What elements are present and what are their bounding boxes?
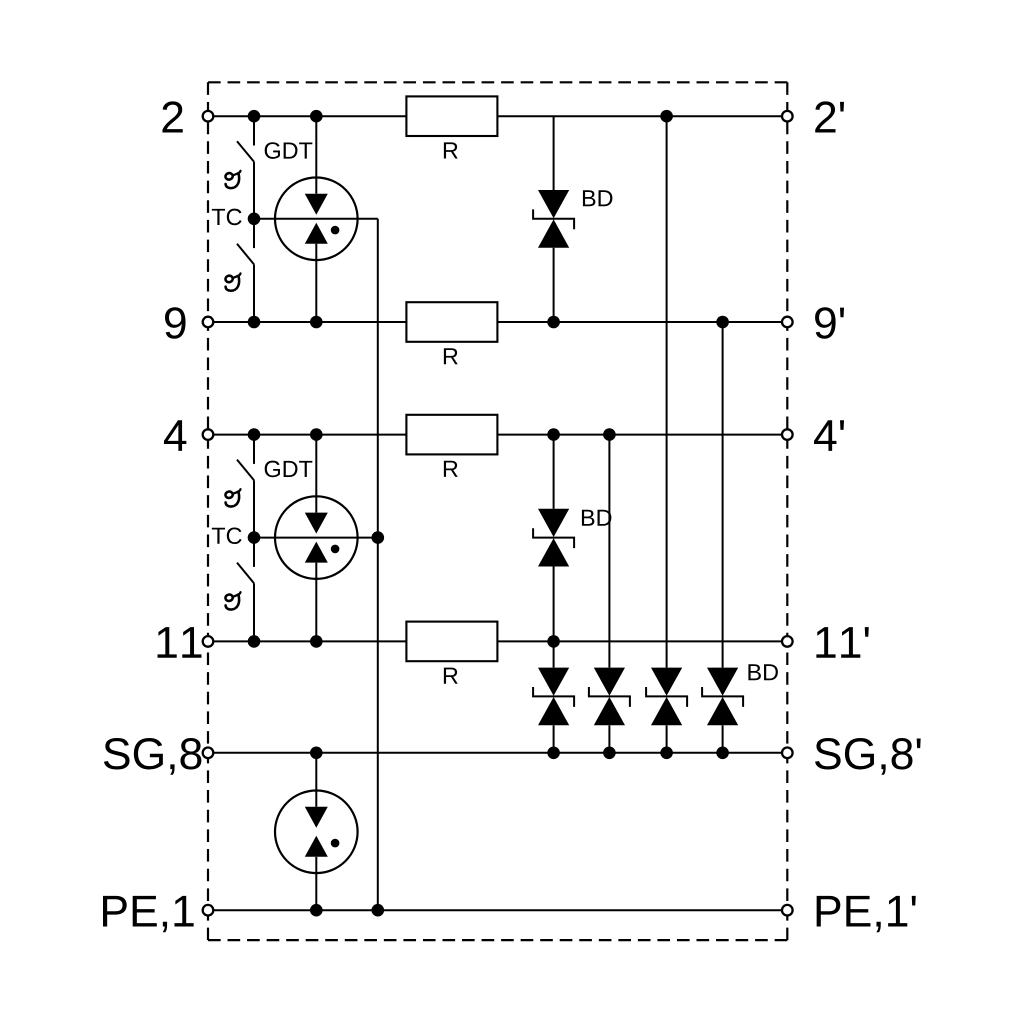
thermal switch TS2: lower wire bbox=[253, 264, 255, 322]
label TC (lower) bbox=[212, 527, 242, 544]
thermal switch TS3: fixed contact wire bbox=[253, 435, 255, 464]
wire BD5 to row SG bbox=[666, 725, 668, 753]
junction rowSG/BD5 col bbox=[660, 747, 673, 760]
junction row9/BD6 col bbox=[716, 316, 729, 329]
junction rowSG/GDT col bbox=[310, 747, 323, 760]
junction row11/switch col bbox=[248, 635, 261, 648]
terminal SG,8' bbox=[782, 748, 793, 759]
gas discharge tube GDT3 (2-electrode) bbox=[275, 791, 358, 874]
wire row2 down to BD5 column bbox=[666, 116, 668, 667]
label GDT (upper) bbox=[265, 142, 313, 159]
thermal switch TS1: fixed contact wire bbox=[253, 116, 255, 145]
label R (row 4) bbox=[444, 461, 458, 477]
junction row11/GDT col bbox=[310, 635, 323, 648]
junction row9/switch col bbox=[248, 316, 261, 329]
wire row2 to GDT1 top electrode bbox=[315, 116, 317, 194]
junction row11/BD3 col bbox=[547, 635, 560, 648]
thermal switch TS3: blade bbox=[237, 460, 254, 481]
junction row2/GDT col bbox=[310, 110, 323, 123]
TC1 horizontal wire through GDT1 bbox=[254, 218, 378, 220]
thermal switch TS4: lower wire bbox=[253, 583, 255, 641]
label terminal 4 bbox=[164, 420, 186, 451]
breakdown diode BD 1 bbox=[533, 190, 574, 248]
thermal switch TS1: lower wire bbox=[253, 162, 255, 219]
junction row4/BD2 col bbox=[547, 428, 560, 441]
wire row4 down to BD2 bbox=[553, 435, 555, 509]
terminal 11 bbox=[203, 636, 214, 647]
junction row4/BD4 col bbox=[603, 428, 616, 441]
thermal switch TS2: fixed contact wire bbox=[253, 219, 255, 248]
label terminal PE,1' bbox=[817, 896, 916, 932]
row 11 horizontal wire bbox=[208, 640, 787, 642]
row 2 horizontal wire bbox=[208, 115, 787, 117]
label terminal SG,8 bbox=[104, 738, 201, 775]
label terminal 2 bbox=[162, 101, 182, 132]
wire BD4 to row SG bbox=[608, 725, 610, 753]
label BD (BD1) bbox=[583, 190, 612, 206]
wire GDT3 bottom electrode to row PE bbox=[315, 857, 317, 910]
thermal switch TS2: blade bbox=[237, 244, 254, 265]
wire row SG to GDT3 top electrode bbox=[315, 753, 317, 807]
junction row2/BD5 col bbox=[660, 110, 673, 123]
breakdown diode BD 2 bbox=[533, 509, 574, 567]
label terminal SG,8' bbox=[815, 738, 921, 775]
junction rowPE/GDT col bbox=[310, 904, 323, 917]
thermal switch TS3: lower wire bbox=[253, 480, 255, 537]
label R (row 11) bbox=[444, 668, 458, 684]
wire BD2 to row 11 bbox=[553, 567, 555, 642]
junction row9/GDT col bbox=[310, 316, 323, 329]
terminal 9' bbox=[782, 317, 793, 328]
wire row11 down to BD3 bbox=[553, 641, 555, 667]
row 4 horizontal wire bbox=[208, 434, 787, 436]
thermal switch TS3: theta symbol bbox=[225, 489, 241, 506]
resistor R (row 2) bbox=[406, 96, 497, 136]
label terminal 4' bbox=[814, 420, 844, 451]
wire BD6 to row SG bbox=[722, 725, 724, 753]
terminal 4' bbox=[782, 429, 793, 440]
junction rowSG/BD6 col bbox=[716, 747, 729, 760]
junction TC2/TC bus bbox=[372, 531, 385, 544]
junction rowSG/BD4 col bbox=[603, 747, 616, 760]
terminal 2' bbox=[782, 111, 793, 122]
junction rowSG/BD3 col bbox=[547, 747, 560, 760]
terminal PE,1' bbox=[782, 905, 793, 916]
breakdown diode BD 5 bbox=[646, 668, 687, 726]
wire row4 to GDT2 top electrode bbox=[315, 435, 317, 513]
junction row4/GDT col bbox=[310, 428, 323, 441]
vertical wire TC bus to PE row bbox=[377, 219, 379, 910]
junction row2/switch col bbox=[248, 110, 261, 123]
terminal 9 bbox=[203, 317, 214, 328]
gas discharge tube GDT1 (3-electrode) bbox=[275, 178, 358, 261]
terminal 2 bbox=[203, 111, 214, 122]
label GDT (lower) bbox=[265, 461, 313, 478]
label terminal 11' bbox=[816, 627, 868, 658]
thermal switch TS1: blade bbox=[237, 141, 254, 162]
thermal switch TS1: theta symbol bbox=[225, 171, 241, 188]
wire GDT1 bottom electrode to row 9 bbox=[315, 244, 317, 322]
enclosure dashed outline top edge bbox=[208, 81, 787, 83]
wire BD1 to row 9 bbox=[553, 248, 555, 322]
resistor R (row 9) bbox=[406, 302, 497, 342]
row PE,1 horizontal wire bbox=[208, 909, 787, 911]
terminal SG,8 bbox=[203, 748, 214, 759]
thermal switch TS4: fixed contact wire bbox=[253, 538, 255, 567]
wire row2 down to BD1 bbox=[553, 116, 555, 190]
enclosure dashed outline right edge bbox=[786, 82, 788, 940]
junction node TC1 bbox=[248, 213, 261, 226]
wire GDT2 bottom electrode to row 11 bbox=[315, 563, 317, 642]
thermal switch TS2: theta symbol bbox=[225, 273, 241, 290]
label R (row 2) bbox=[444, 142, 458, 158]
thermal switch TS4: blade bbox=[237, 563, 254, 584]
wire row9 down to BD6 column bbox=[722, 322, 724, 668]
label TC (upper) bbox=[212, 209, 242, 226]
terminal 11' bbox=[782, 636, 793, 647]
wire row4 down to BD4 column bbox=[608, 435, 610, 668]
row 9 horizontal wire bbox=[208, 321, 787, 323]
label terminal PE,1 bbox=[103, 896, 194, 932]
label BD (BD row) bbox=[748, 664, 777, 680]
thermal switch TS4: theta symbol bbox=[225, 592, 241, 609]
label R (row 9) bbox=[444, 348, 458, 364]
breakdown diode BD 6 bbox=[702, 668, 743, 726]
row SG,8 horizontal wire bbox=[208, 752, 787, 754]
terminal PE,1 bbox=[203, 905, 214, 916]
label terminal 2' bbox=[815, 101, 844, 132]
label terminal 9' bbox=[815, 307, 844, 339]
gas discharge tube GDT2 (3-electrode) bbox=[275, 496, 358, 579]
TC2 horizontal wire through GDT2 bbox=[254, 537, 378, 539]
enclosure dashed outline left edge bbox=[207, 82, 209, 940]
junction node TC2 bbox=[248, 531, 261, 544]
resistor R (row 11) bbox=[406, 622, 497, 662]
resistor R (row 4) bbox=[406, 415, 497, 455]
junction row9/BD1 col bbox=[547, 316, 560, 329]
junction rowPE/TC bus bbox=[372, 904, 385, 917]
junction row4/switch col bbox=[248, 428, 261, 441]
terminal 4 bbox=[203, 429, 214, 440]
wire BD3 to row SG bbox=[553, 725, 555, 753]
enclosure dashed outline bottom edge bbox=[208, 939, 787, 941]
label BD (BD2) bbox=[582, 510, 611, 526]
breakdown diode BD 3 bbox=[533, 668, 574, 726]
breakdown diode BD 4 bbox=[589, 668, 630, 726]
label terminal 9 bbox=[165, 307, 186, 339]
label terminal 11 bbox=[158, 627, 202, 658]
